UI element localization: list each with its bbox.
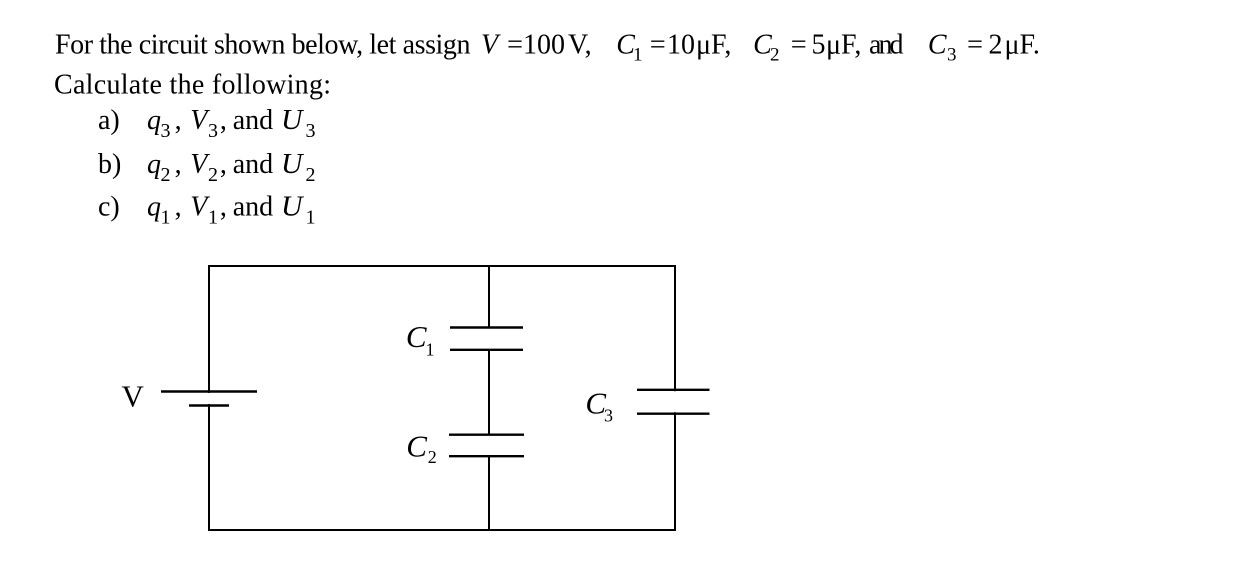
svg-text:,: , [175, 105, 182, 136]
svg-text:V: V [481, 30, 501, 61]
svg-text:1: 1 [208, 207, 218, 229]
svg-text:1: 1 [633, 45, 643, 66]
wire middle branch between C1 and C2 [488, 350, 490, 435]
svg-text:V: V [122, 379, 145, 414]
svg-text:and: and [233, 149, 273, 180]
svg-text:3: 3 [947, 45, 957, 66]
wire middle branch lower (C2 to bottom rail) [488, 456, 490, 530]
problem statement line 1 [55, 30, 1040, 66]
svg-text:,: , [220, 192, 227, 223]
label C2 [406, 429, 437, 468]
svg-text:5: 5 [812, 30, 826, 61]
battery V [161, 392, 257, 406]
svg-text:=: = [967, 30, 983, 61]
capacitor C2 [449, 435, 524, 457]
svg-text:3: 3 [604, 406, 613, 426]
svg-text:and: and [869, 30, 904, 61]
svg-text:10: 10 [667, 30, 695, 61]
list item b [98, 149, 316, 186]
svg-text:3: 3 [161, 120, 171, 142]
svg-text:,: , [175, 192, 182, 223]
list item c [98, 192, 316, 229]
label C1 [406, 319, 435, 360]
svg-text:=: = [650, 30, 666, 61]
capacitor C3 [637, 390, 710, 414]
list item a [98, 105, 316, 142]
svg-text:2: 2 [989, 30, 1003, 61]
svg-text:q: q [147, 105, 161, 136]
svg-text:U: U [281, 149, 304, 180]
svg-text:a): a) [98, 105, 120, 136]
svg-text:2: 2 [161, 164, 171, 186]
svg-text:and: and [233, 105, 273, 136]
svg-text:Calculate the following:: Calculate the following: [54, 70, 331, 101]
svg-text:U: U [281, 105, 304, 136]
svg-text:C: C [928, 30, 947, 61]
svg-text:b): b) [98, 149, 121, 180]
svg-text:C: C [406, 429, 427, 464]
svg-text:,: , [175, 149, 182, 180]
svg-text:,: , [220, 149, 227, 180]
svg-text:2: 2 [208, 164, 218, 186]
svg-text:1: 1 [161, 207, 171, 229]
svg-text:2: 2 [770, 45, 780, 66]
svg-text:μF,: μF, [696, 30, 731, 61]
capacitor C1 [450, 328, 523, 350]
label C3 [585, 386, 613, 426]
svg-text:100: 100 [523, 30, 565, 61]
svg-text:3: 3 [208, 120, 218, 142]
svg-text:=: = [507, 30, 523, 61]
svg-text:C: C [406, 319, 427, 354]
svg-text:1: 1 [426, 340, 435, 360]
svg-text:q: q [147, 192, 161, 223]
wire outer loop (top rail, left branch, right branch, bottom rail) [209, 266, 675, 530]
svg-text:,: , [220, 105, 227, 136]
svg-text:q: q [147, 149, 161, 180]
svg-text:U: U [281, 192, 304, 223]
svg-text:μF.: μF. [1005, 30, 1040, 61]
svg-text:and: and [233, 192, 273, 223]
svg-text:2: 2 [306, 164, 316, 186]
svg-text:1: 1 [306, 207, 316, 229]
wire middle branch upper (top rail to C1) [488, 266, 490, 328]
svg-text:3: 3 [306, 120, 316, 142]
svg-text:2: 2 [428, 447, 437, 467]
svg-text:c): c) [98, 192, 120, 223]
svg-text:V,: V, [568, 30, 592, 61]
svg-text:For the circuit shown below, l: For the circuit shown below, let assign [55, 30, 471, 61]
svg-text:μF,: μF, [826, 30, 861, 61]
svg-text:=: = [791, 30, 807, 61]
